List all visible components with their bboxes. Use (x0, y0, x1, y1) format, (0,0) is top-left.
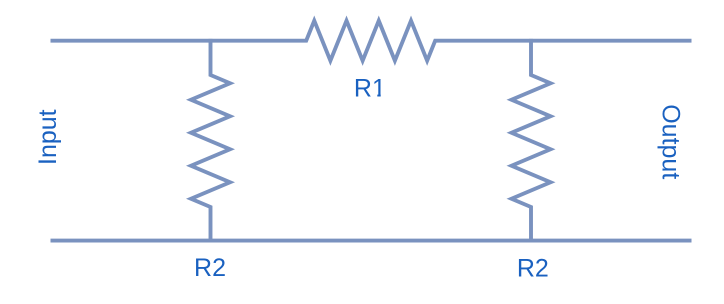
svg-text:R2: R2 (517, 255, 549, 283)
svg-text:R1: R1 (354, 74, 386, 102)
bottom wire (51, 239, 692, 243)
resistor R2 (right shunt) (512, 39, 551, 243)
label R1 foot mask left (372, 93, 377, 96)
svg-text:Input: Input (34, 109, 62, 165)
top wire with resistor R1 (51, 21, 692, 61)
svg-text:R2: R2 (194, 254, 226, 282)
label R1 foot mask right (381, 93, 387, 96)
svg-text:Output: Output (656, 104, 684, 179)
resistor R2 (left shunt) (191, 39, 230, 243)
